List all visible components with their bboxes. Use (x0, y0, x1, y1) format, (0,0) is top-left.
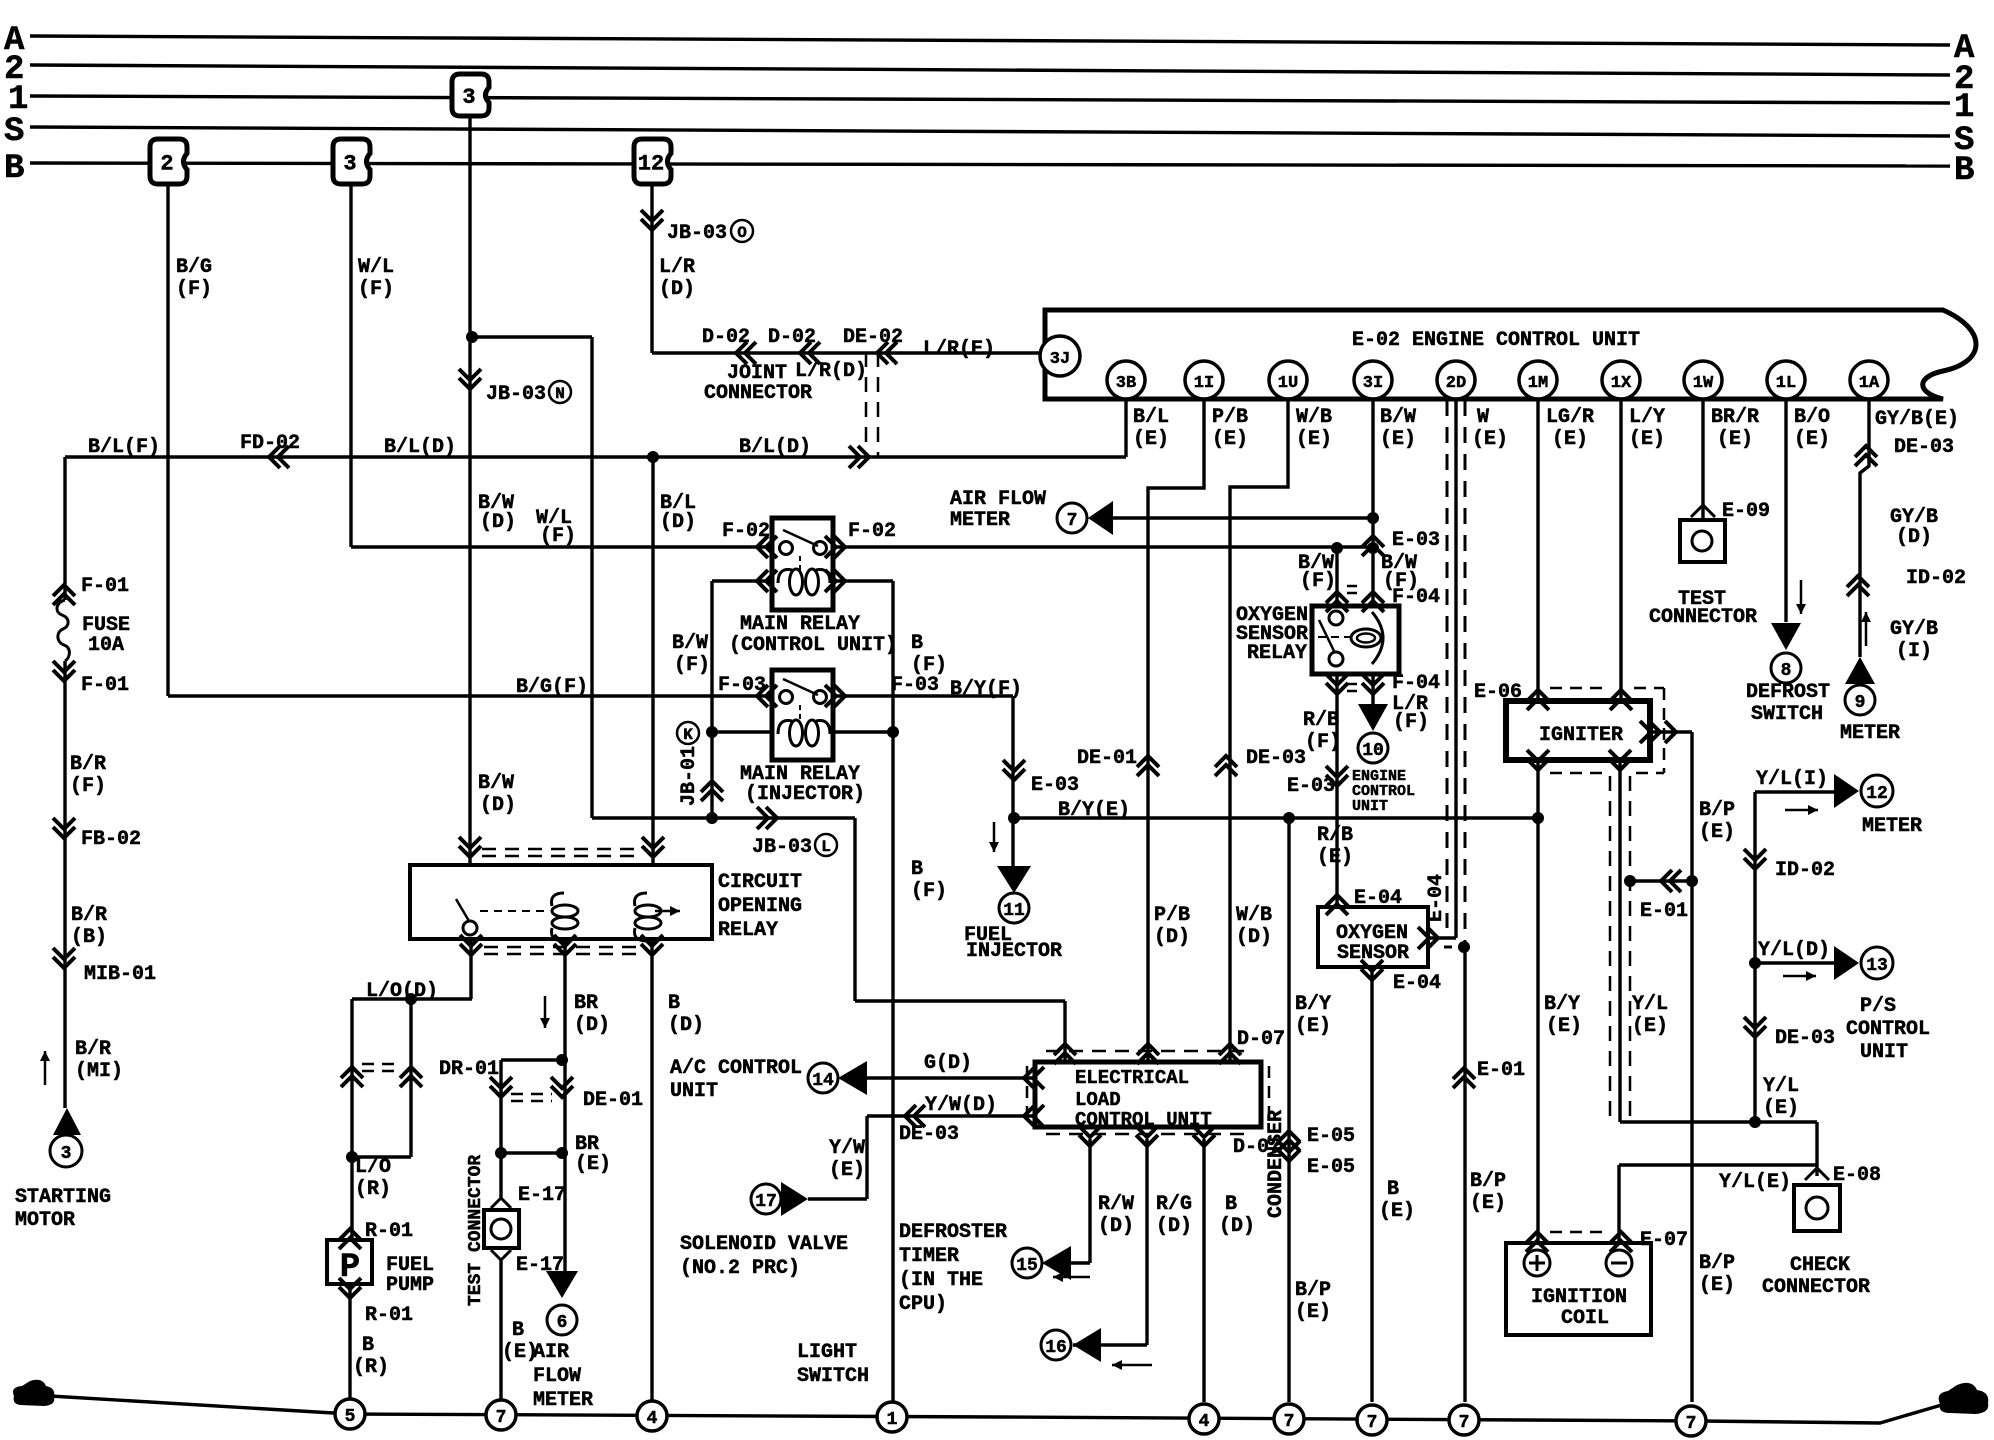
svg-text:(E): (E) (1317, 846, 1353, 869)
svg-text:(D): (D) (1896, 526, 1932, 549)
svg-text:F-01: F-01 (81, 674, 129, 697)
svg-text:6: 6 (557, 1313, 568, 1333)
svg-text:A/C CONTROL: A/C CONTROL (670, 1057, 802, 1080)
svg-text:MAIN RELAY: MAIN RELAY (740, 613, 860, 636)
svg-text:E-05: E-05 (1307, 1125, 1355, 1148)
svg-text:(D): (D) (1098, 1215, 1134, 1238)
svg-text:COIL: COIL (1561, 1307, 1609, 1330)
svg-text:(E): (E) (575, 1153, 611, 1176)
svg-text:E-17: E-17 (518, 1184, 566, 1207)
svg-text:(E): (E) (1763, 1097, 1799, 1120)
svg-text:GY/B: GY/B (1890, 618, 1938, 641)
svg-text:(D): (D) (659, 278, 695, 301)
svg-text:(E): (E) (1629, 428, 1665, 451)
svg-text:1X: 1X (1611, 374, 1632, 393)
svg-text:BR: BR (574, 992, 598, 1015)
svg-text:E-01: E-01 (1477, 1059, 1525, 1082)
svg-text:(E): (E) (829, 1159, 865, 1182)
svg-text:DE-03: DE-03 (1775, 1027, 1835, 1050)
svg-text:D-02: D-02 (702, 326, 750, 349)
svg-text:B/W: B/W (672, 632, 708, 655)
svg-text:DE-03: DE-03 (899, 1123, 959, 1146)
svg-text:3J: 3J (1050, 350, 1070, 369)
svg-text:SWITCH: SWITCH (797, 1365, 869, 1388)
svg-text:(INJECTOR): (INJECTOR) (745, 783, 865, 806)
svg-text:DE-01: DE-01 (1077, 747, 1137, 770)
svg-text:CPU): CPU) (899, 1293, 947, 1316)
svg-text:(E): (E) (1380, 428, 1416, 451)
svg-text:11: 11 (1003, 901, 1025, 921)
svg-text:N: N (555, 385, 565, 403)
svg-text:12: 12 (638, 152, 664, 177)
svg-text:ELECTRICAL: ELECTRICAL (1075, 1067, 1189, 1089)
svg-text:15: 15 (1016, 1256, 1038, 1276)
svg-text:Y/W: Y/W (829, 1137, 865, 1160)
svg-text:7: 7 (1686, 1414, 1697, 1434)
svg-text:DE-03: DE-03 (1246, 747, 1306, 770)
svg-text:(E): (E) (1379, 1200, 1415, 1223)
svg-text:METER: METER (950, 509, 1010, 532)
svg-text:(D): (D) (480, 511, 516, 534)
svg-text:(R): (R) (355, 1178, 391, 1201)
svg-text:W/L: W/L (358, 256, 394, 279)
svg-text:F-01: F-01 (81, 575, 129, 598)
svg-text:(F): (F) (176, 278, 212, 301)
svg-text:B/W: B/W (478, 772, 514, 795)
svg-text:1A: 1A (1859, 374, 1880, 393)
svg-text:(E): (E) (1552, 428, 1588, 451)
svg-text:(E): (E) (1699, 821, 1735, 844)
svg-text:DEFROST: DEFROST (1746, 681, 1830, 704)
svg-text:STARTING: STARTING (15, 1186, 111, 1209)
svg-text:W/B: W/B (1296, 406, 1332, 429)
svg-text:DE-03: DE-03 (1894, 436, 1954, 459)
svg-text:B/R: B/R (75, 1038, 111, 1061)
svg-text:CIRCUIT: CIRCUIT (718, 871, 802, 894)
svg-text:JB-01: JB-01 (678, 746, 701, 806)
svg-text:E-03: E-03 (1392, 529, 1440, 552)
svg-text:F-03: F-03 (891, 674, 939, 697)
svg-text:DR-01: DR-01 (439, 1058, 499, 1081)
svg-text:RELAY: RELAY (1247, 642, 1307, 665)
svg-text:E-01: E-01 (1640, 900, 1688, 923)
svg-text:L/R: L/R (659, 256, 695, 279)
svg-text:(E): (E) (1546, 1015, 1582, 1038)
svg-text:LG/R: LG/R (1546, 406, 1594, 429)
svg-text:(D): (D) (1219, 1215, 1255, 1238)
svg-text:(I): (I) (1896, 640, 1932, 663)
svg-text:D-02: D-02 (768, 326, 816, 349)
svg-text:CONNECTOR: CONNECTOR (1762, 1276, 1870, 1299)
svg-text:Y/L: Y/L (1763, 1075, 1799, 1098)
svg-text:CONTROL: CONTROL (1846, 1018, 1930, 1041)
svg-text:B/P: B/P (1699, 1252, 1735, 1275)
svg-text:MOTOR: MOTOR (15, 1209, 75, 1232)
svg-text:DEFROSTER: DEFROSTER (899, 1221, 1007, 1244)
svg-text:B/L: B/L (1133, 406, 1169, 429)
svg-text:7: 7 (1067, 511, 1078, 531)
svg-text:F-02: F-02 (848, 520, 896, 543)
svg-text:JB-03: JB-03 (486, 383, 546, 406)
svg-text:(D): (D) (1236, 926, 1272, 949)
svg-text:OPENING: OPENING (718, 895, 802, 918)
svg-text:B/O: B/O (1794, 406, 1830, 429)
svg-text:1: 1 (887, 1410, 898, 1430)
svg-text:B: B (362, 1334, 374, 1357)
svg-text:13: 13 (1866, 956, 1888, 976)
svg-text:E-04: E-04 (1393, 972, 1441, 995)
svg-text:G(D): G(D) (924, 1052, 972, 1075)
svg-text:(F): (F) (911, 880, 947, 903)
svg-text:B: B (911, 858, 923, 881)
svg-text:R/G: R/G (1156, 1193, 1192, 1216)
svg-text:GY/B(E): GY/B(E) (1875, 408, 1959, 431)
svg-text:L/Y: L/Y (1629, 406, 1665, 429)
svg-text:B: B (668, 992, 680, 1015)
svg-text:7: 7 (1284, 1412, 1295, 1432)
svg-text:(NO.2 PRC): (NO.2 PRC) (680, 1257, 800, 1280)
svg-text:DE-02: DE-02 (843, 326, 903, 349)
svg-text:2: 2 (160, 152, 173, 177)
svg-text:METER: METER (533, 1389, 593, 1412)
svg-text:3: 3 (343, 152, 356, 177)
svg-text:10: 10 (1362, 741, 1384, 761)
svg-text:(E): (E) (1470, 1192, 1506, 1215)
svg-text:E-02 ENGINE CONTROL UNIT: E-02 ENGINE CONTROL UNIT (1352, 329, 1640, 352)
svg-text:3: 3 (462, 85, 475, 110)
svg-text:S: S (4, 113, 24, 151)
svg-text:B/Y: B/Y (1544, 993, 1580, 1016)
svg-text:B: B (4, 150, 24, 188)
svg-text:E-03: E-03 (1031, 774, 1079, 797)
svg-text:R-01: R-01 (365, 1220, 413, 1243)
svg-text:Y/L(D): Y/L(D) (1758, 939, 1830, 962)
svg-text:3I: 3I (1363, 374, 1383, 393)
svg-text:(F): (F) (674, 654, 710, 677)
svg-text:DE-01: DE-01 (583, 1089, 643, 1112)
svg-text:(E): (E) (1699, 1274, 1735, 1297)
svg-text:(D): (D) (668, 1014, 704, 1037)
svg-text:E-03: E-03 (1287, 775, 1335, 798)
svg-text:UNIT: UNIT (670, 1080, 718, 1103)
svg-text:R/W: R/W (1098, 1193, 1134, 1216)
svg-text:B/Y: B/Y (1295, 993, 1331, 1016)
svg-text:(CONTROL UNIT): (CONTROL UNIT) (729, 634, 897, 657)
svg-text:R/B: R/B (1303, 709, 1339, 732)
svg-text:METER: METER (1862, 815, 1922, 838)
svg-text:UNIT: UNIT (1352, 798, 1388, 815)
svg-text:(D): (D) (480, 794, 516, 817)
svg-text:B: B (1225, 1193, 1237, 1216)
svg-text:7: 7 (1459, 1413, 1470, 1433)
svg-text:8: 8 (1781, 661, 1792, 681)
svg-text:B: B (911, 632, 923, 655)
svg-text:(F): (F) (1393, 711, 1429, 734)
svg-text:B/P: B/P (1470, 1170, 1506, 1193)
svg-text:SWITCH: SWITCH (1751, 703, 1823, 726)
svg-text:Y/L(I): Y/L(I) (1756, 768, 1828, 791)
svg-text:W/B: W/B (1236, 904, 1272, 927)
svg-text:L/R(D): L/R(D) (795, 360, 867, 383)
svg-text:1U: 1U (1278, 374, 1298, 393)
svg-text:O: O (737, 224, 747, 242)
svg-text:TIMER: TIMER (899, 1245, 959, 1268)
svg-text:Y/L(E): Y/L(E) (1719, 1171, 1791, 1194)
svg-text:P/S: P/S (1860, 995, 1896, 1018)
svg-text:D-07: D-07 (1237, 1028, 1285, 1051)
svg-text:LIGHT: LIGHT (797, 1341, 857, 1364)
svg-text:B/W: B/W (1380, 406, 1416, 429)
svg-text:B/P: B/P (1295, 1279, 1331, 1302)
svg-text:(R): (R) (353, 1356, 389, 1379)
svg-text:17: 17 (755, 1192, 777, 1212)
svg-text:E-06: E-06 (1474, 681, 1522, 704)
svg-text:E-04: E-04 (1354, 887, 1402, 910)
svg-text:Y/L: Y/L (1632, 993, 1668, 1016)
svg-text:W: W (1477, 406, 1489, 429)
svg-text:CONTROL UNIT: CONTROL UNIT (1075, 1109, 1212, 1131)
svg-text:CONNECTOR: CONNECTOR (1649, 606, 1757, 629)
svg-text:FLOW: FLOW (533, 1365, 581, 1388)
svg-text:E-09: E-09 (1722, 500, 1770, 523)
svg-text:AIR: AIR (533, 1341, 569, 1364)
svg-text:SENSOR: SENSOR (1337, 942, 1409, 965)
svg-text:K: K (683, 726, 693, 744)
svg-text:SOLENOID VALVE: SOLENOID VALVE (680, 1233, 848, 1256)
svg-text:1M: 1M (1528, 374, 1548, 393)
svg-text:TEST CONNECTOR: TEST CONNECTOR (466, 1155, 486, 1306)
svg-text:(E): (E) (1794, 428, 1830, 451)
svg-text:3B: 3B (1116, 374, 1136, 393)
svg-text:UNIT: UNIT (1860, 1041, 1908, 1064)
svg-text:E-04: E-04 (1425, 874, 1448, 922)
svg-text:(F): (F) (1300, 570, 1336, 593)
svg-text:(E): (E) (1717, 428, 1753, 451)
svg-text:4: 4 (1199, 1412, 1210, 1432)
svg-text:B/L(D): B/L(D) (739, 436, 811, 459)
svg-text:(E): (E) (1472, 428, 1508, 451)
svg-text:(E): (E) (1632, 1015, 1668, 1038)
svg-text:BR/R: BR/R (1711, 406, 1759, 429)
svg-text:B/R: B/R (70, 753, 106, 776)
svg-text:P/B: P/B (1212, 406, 1248, 429)
svg-text:B/G: B/G (176, 256, 212, 279)
svg-text:INJECTOR: INJECTOR (966, 940, 1062, 963)
svg-text:(F): (F) (358, 278, 394, 301)
svg-text:(D): (D) (574, 1014, 610, 1037)
svg-text:JB-03: JB-03 (752, 836, 812, 859)
svg-text:2D: 2D (1446, 374, 1466, 393)
svg-text:1I: 1I (1194, 374, 1214, 393)
svg-text:3: 3 (61, 1144, 72, 1164)
svg-text:1W: 1W (1693, 374, 1714, 393)
svg-text:JB-03: JB-03 (667, 222, 727, 245)
svg-text:(D): (D) (1156, 1215, 1192, 1238)
svg-text:CONDENSER: CONDENSER (1265, 1110, 1288, 1218)
svg-text:(E): (E) (1133, 428, 1169, 451)
svg-text:B: B (512, 1319, 524, 1342)
svg-text:L/R(E): L/R(E) (923, 338, 995, 361)
svg-text:14: 14 (812, 1071, 834, 1091)
svg-text:IGNITER: IGNITER (1539, 724, 1623, 747)
svg-text:B/L(F): B/L(F) (88, 436, 160, 459)
svg-text:1L: 1L (1776, 374, 1796, 393)
svg-text:B: B (1954, 152, 1974, 190)
svg-text:9: 9 (1855, 693, 1866, 713)
svg-text:B/Y(E): B/Y(E) (1058, 799, 1130, 822)
svg-text:(F): (F) (1305, 731, 1341, 754)
svg-text:16: 16 (1045, 1338, 1067, 1358)
svg-text:(B): (B) (71, 926, 107, 949)
svg-text:(IN THE: (IN THE (899, 1269, 983, 1292)
svg-text:FD-02: FD-02 (240, 432, 300, 455)
svg-text:AIR FLOW: AIR FLOW (950, 488, 1046, 511)
svg-text:PUMP: PUMP (386, 1274, 434, 1297)
svg-text:R-01: R-01 (365, 1304, 413, 1327)
svg-text:L/O(D): L/O(D) (366, 980, 438, 1003)
svg-text:L/O: L/O (355, 1156, 391, 1179)
svg-text:5: 5 (345, 1407, 356, 1427)
svg-text:RELAY: RELAY (718, 919, 778, 942)
svg-text:(E): (E) (1295, 1301, 1331, 1324)
svg-text:MIB-01: MIB-01 (84, 963, 156, 986)
svg-text:B: B (1387, 1178, 1399, 1201)
svg-text:(D): (D) (660, 511, 696, 534)
svg-text:E-05: E-05 (1307, 1156, 1355, 1179)
svg-text:L: L (821, 838, 831, 856)
svg-text:E-08: E-08 (1833, 1164, 1881, 1187)
svg-text:ID-02: ID-02 (1906, 567, 1966, 590)
svg-text:(E): (E) (1212, 428, 1248, 451)
svg-text:B/G(F): B/G(F) (516, 676, 588, 699)
svg-text:F-04: F-04 (1392, 586, 1440, 609)
svg-text:E-07: E-07 (1640, 1229, 1688, 1252)
svg-text:CONNECTOR: CONNECTOR (704, 382, 812, 405)
svg-text:B/L(D): B/L(D) (384, 436, 456, 459)
svg-text:(MI): (MI) (75, 1060, 123, 1083)
svg-text:B/P: B/P (1699, 799, 1735, 822)
svg-text:B/Y(F): B/Y(F) (950, 678, 1022, 701)
svg-text:F-04: F-04 (1392, 672, 1440, 695)
svg-text:P/B: P/B (1154, 904, 1190, 927)
svg-text:F-03: F-03 (718, 674, 766, 697)
svg-text:7: 7 (496, 1408, 507, 1428)
svg-text:LOAD: LOAD (1075, 1089, 1121, 1111)
svg-text:(F): (F) (70, 775, 106, 798)
svg-text:FB-02: FB-02 (81, 828, 141, 851)
svg-text:METER: METER (1840, 722, 1900, 745)
svg-text:10A: 10A (88, 634, 124, 657)
svg-text:CHECK: CHECK (1790, 1254, 1850, 1277)
svg-text:Y/W(D): Y/W(D) (925, 1094, 997, 1117)
svg-text:F-02: F-02 (722, 520, 770, 543)
svg-text:R/B: R/B (1317, 824, 1353, 847)
svg-text:IGNITION: IGNITION (1531, 1286, 1627, 1309)
svg-text:(E): (E) (1295, 1015, 1331, 1038)
svg-text:ID-02: ID-02 (1775, 859, 1835, 882)
svg-text:4: 4 (647, 1409, 658, 1429)
svg-text:(E): (E) (1296, 428, 1332, 451)
svg-text:12: 12 (1866, 784, 1888, 804)
svg-text:7: 7 (1367, 1413, 1378, 1433)
svg-text:(F): (F) (540, 525, 576, 548)
svg-text:B/R: B/R (71, 904, 107, 927)
svg-text:(D): (D) (1154, 926, 1190, 949)
